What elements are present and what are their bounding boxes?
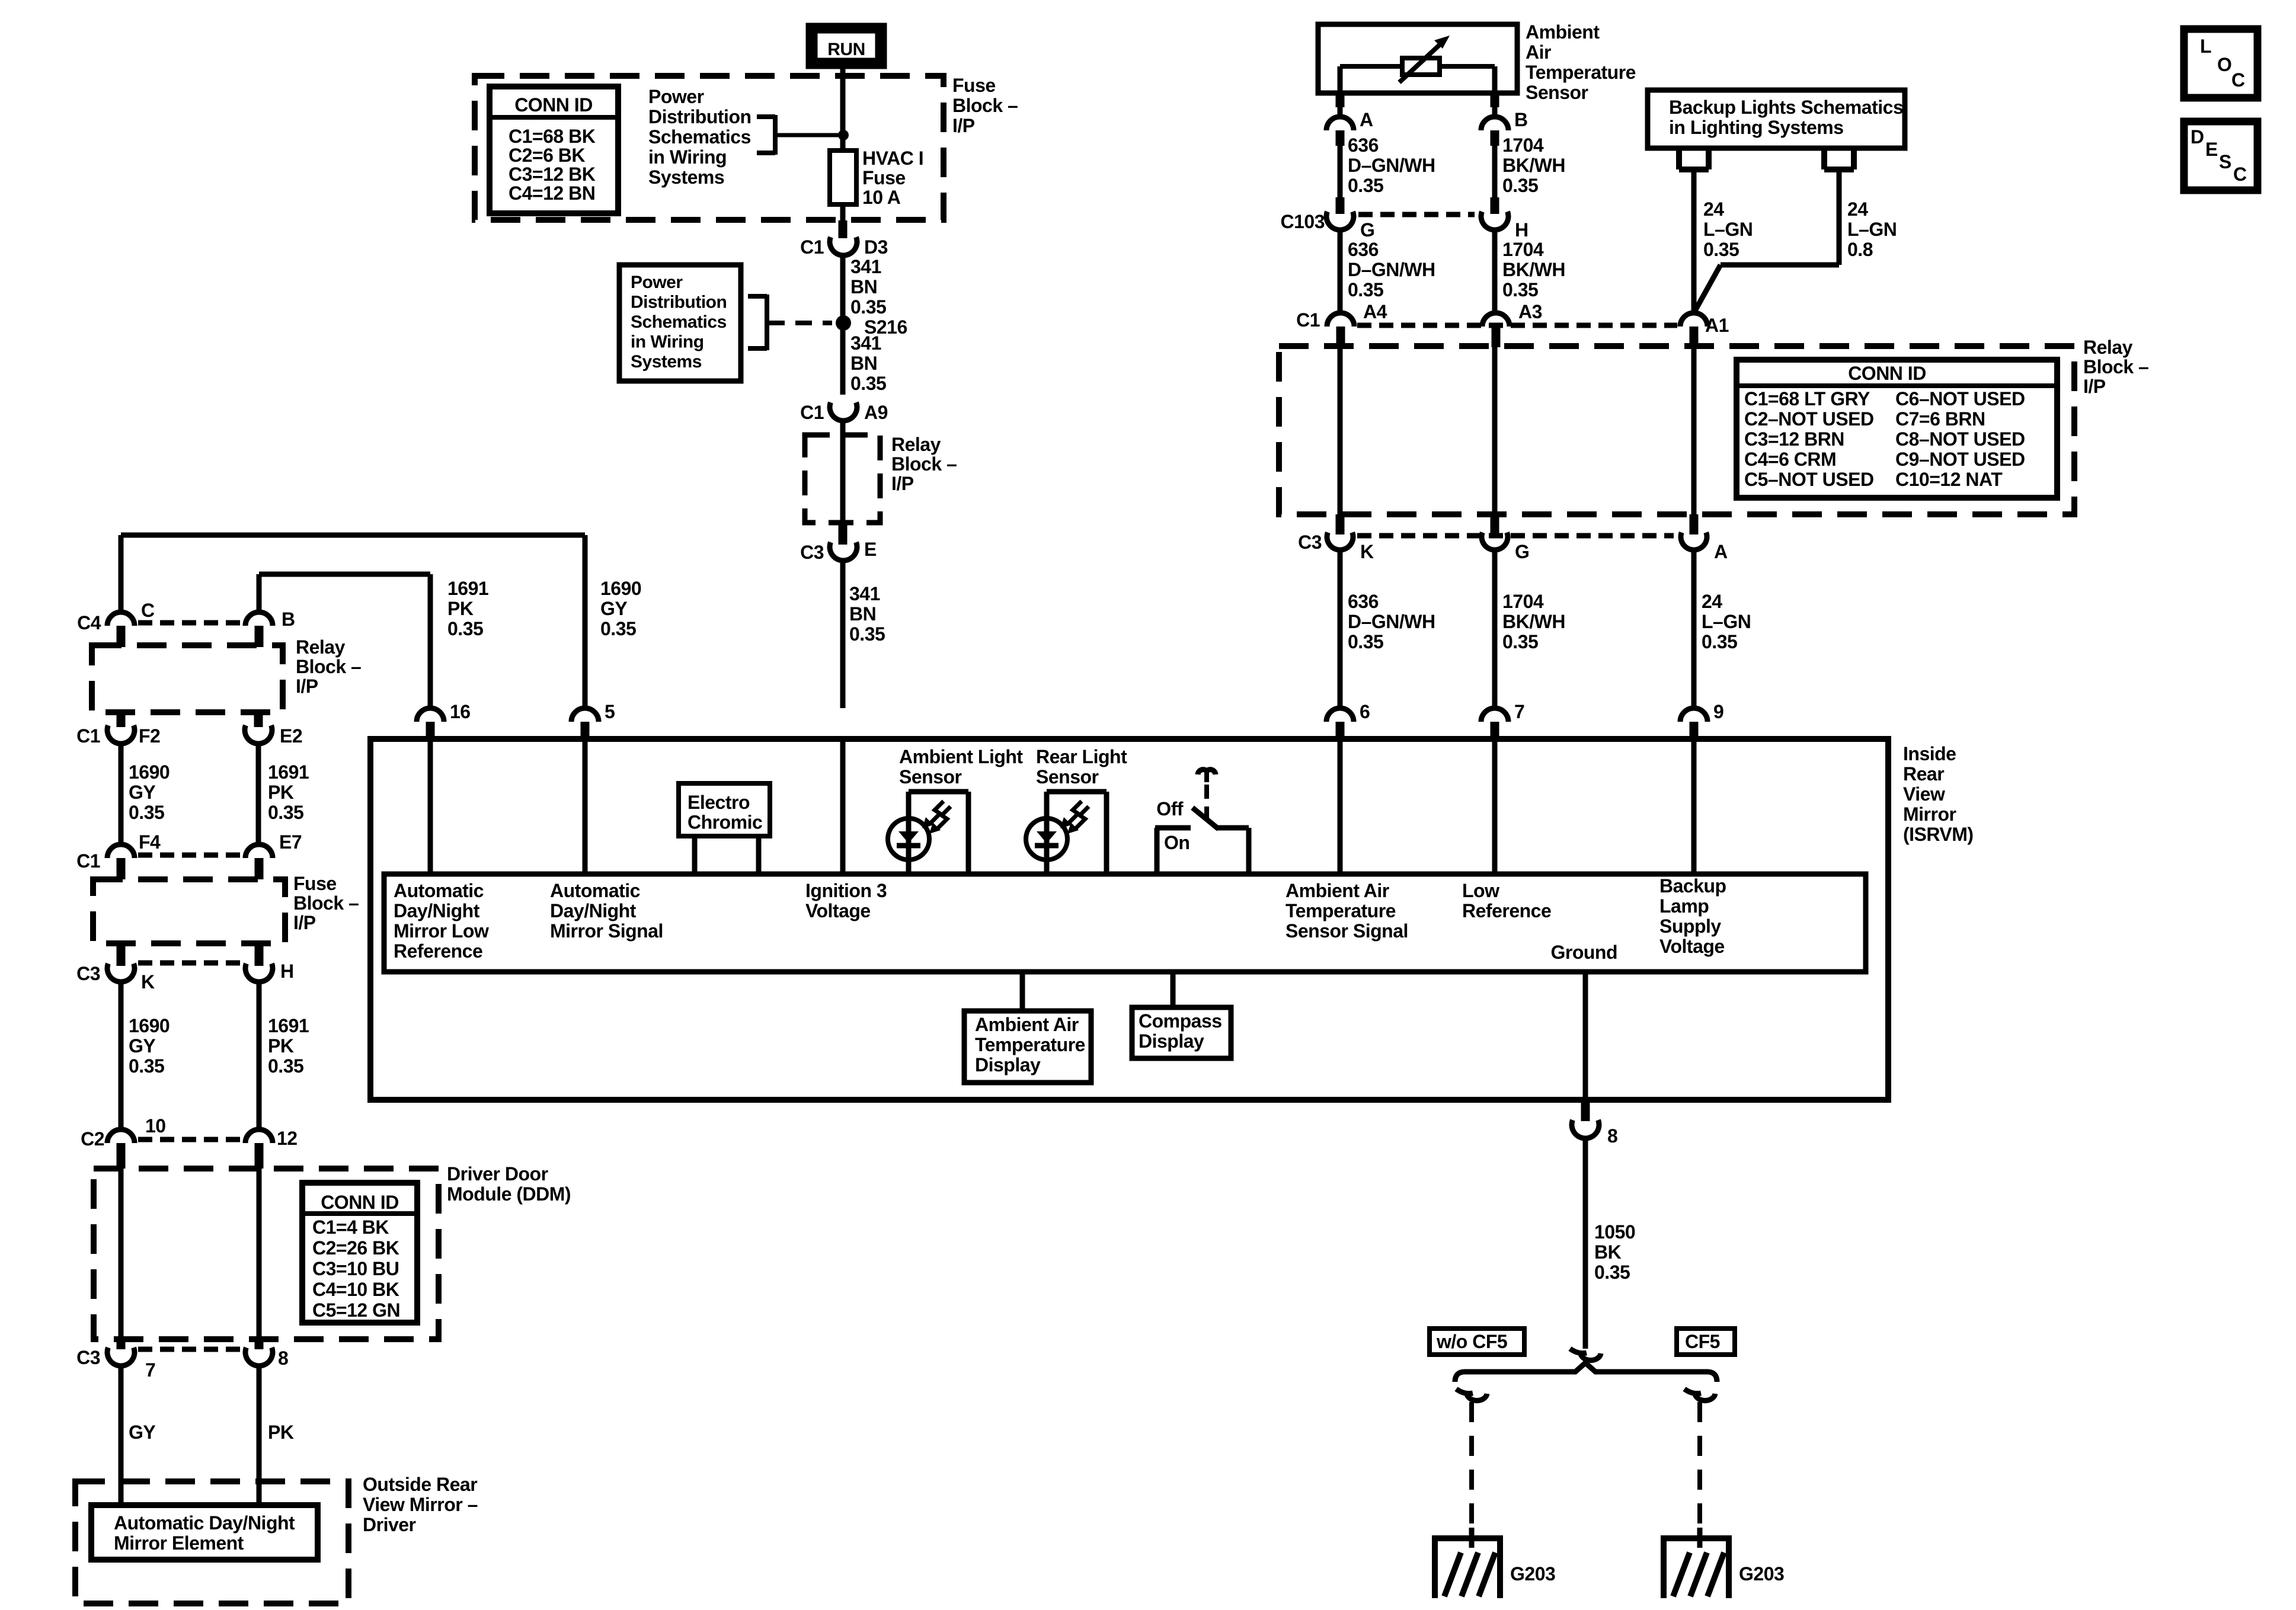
svg-text:Relay: Relay	[891, 434, 941, 455]
wire label 636 D-GN/WH 0.35 (A)	[1340, 135, 1435, 197]
svg-text:Lamp: Lamp	[1659, 895, 1709, 917]
svg-text:in Lighting Systems: in Lighting Systems	[1669, 117, 1844, 138]
svg-text:Rear: Rear	[1903, 763, 1944, 785]
label Low Reference	[1462, 880, 1551, 921]
CONN ID table (DDM)	[302, 1183, 417, 1323]
svg-text:Block –: Block –	[296, 656, 361, 677]
wire pin7 to function box	[1492, 742, 1498, 874]
connector C1 E2	[245, 725, 302, 747]
connector C1 E7	[245, 831, 302, 879]
wire to compass display	[1171, 972, 1176, 1007]
svg-text:G: G	[1515, 541, 1529, 562]
label Ambient Air Temperature Sensor	[1526, 21, 1636, 103]
svg-text:Systems: Systems	[631, 352, 702, 372]
svg-text:C3=12 BK: C3=12 BK	[509, 164, 596, 185]
svg-text:Ambient Light: Ambient Light	[899, 746, 1023, 767]
ISRVM pin function box	[384, 874, 1866, 972]
svg-text:Schematics: Schematics	[631, 312, 727, 332]
svg-text:G203: G203	[1739, 1563, 1784, 1585]
svg-text:View: View	[1903, 783, 1945, 805]
svg-text:C1=68 BK: C1=68 BK	[509, 126, 596, 147]
svg-text:Sensor: Sensor	[1526, 82, 1588, 103]
svg-text:C1=68 LT GRY: C1=68 LT GRY	[1744, 388, 1870, 409]
wire H stub	[255, 943, 264, 966]
connector C1 A4	[1296, 301, 1387, 347]
svg-text:C2=26 BK: C2=26 BK	[312, 1237, 399, 1259]
wire K stub	[117, 943, 126, 966]
svg-text:341: 341	[850, 332, 881, 354]
svg-text:E7: E7	[279, 831, 302, 853]
svg-text:Temperature: Temperature	[975, 1034, 1085, 1055]
label Outside Rear View Mirror - Driver	[363, 1474, 478, 1535]
outside rear view mirror dashed box	[75, 1481, 348, 1603]
svg-text:1691: 1691	[268, 1015, 309, 1036]
svg-text:C3: C3	[76, 1347, 100, 1368]
wire pin9 to function box	[1691, 742, 1697, 874]
svg-text:D–GN/WH: D–GN/WH	[1348, 259, 1435, 280]
svg-text:Supply: Supply	[1659, 916, 1721, 937]
svg-text:1691: 1691	[447, 578, 488, 599]
svg-text:Systems: Systems	[648, 167, 724, 188]
svg-text:L–GN: L–GN	[1703, 219, 1753, 240]
label Fuse Block - I/P (left)	[293, 873, 359, 933]
svg-text:D–GN/WH: D–GN/WH	[1348, 155, 1435, 176]
svg-text:C: C	[141, 600, 155, 621]
wire K through relay block	[1338, 346, 1343, 534]
label Ambient Light Sensor	[899, 746, 1023, 788]
svg-text:S: S	[2219, 151, 2231, 172]
svg-text:24: 24	[1702, 591, 1722, 612]
backup box tab left	[1679, 148, 1709, 169]
wire label PK	[259, 1366, 294, 1505]
svg-text:C6–NOT USED: C6–NOT USED	[1895, 388, 2025, 409]
svg-text:Mirror Signal: Mirror Signal	[550, 920, 663, 942]
svg-text:0.35: 0.35	[850, 296, 886, 318]
svg-text:HVAC I: HVAC I	[862, 148, 923, 169]
options brace	[1455, 1363, 1717, 1382]
svg-text:GY: GY	[129, 1422, 155, 1443]
svg-text:PK: PK	[447, 598, 474, 619]
svg-text:G203: G203	[1510, 1563, 1555, 1585]
label Ground	[1550, 942, 1617, 963]
pin 16 connector	[417, 701, 471, 742]
svg-text:GY: GY	[129, 782, 155, 803]
svg-text:1704: 1704	[1502, 135, 1544, 156]
svg-text:C7=6 BRN: C7=6 BRN	[1895, 408, 1985, 430]
inside rear view mirror box	[370, 739, 1888, 1100]
svg-text:I/P: I/P	[891, 473, 914, 494]
svg-text:F4: F4	[139, 831, 161, 853]
dashed pairing line F4-E7	[138, 853, 243, 858]
relay block I/P dashed box (small)	[805, 421, 880, 523]
svg-text:C4: C4	[77, 612, 101, 633]
svg-text:A1: A1	[1705, 315, 1729, 336]
svg-text:C1: C1	[76, 850, 100, 872]
svg-text:341: 341	[849, 583, 880, 604]
svg-text:Ambient: Ambient	[1526, 21, 1600, 43]
svg-text:0.35: 0.35	[1702, 631, 1737, 652]
connector C3 K	[1298, 532, 1374, 562]
svg-text:w/o CF5: w/o CF5	[1436, 1331, 1507, 1352]
wire 341 BN 0.35 to pin 13	[843, 561, 885, 708]
svg-text:1704: 1704	[1502, 591, 1544, 612]
svg-text:A: A	[1714, 541, 1728, 562]
svg-text:5: 5	[605, 701, 615, 722]
wire pin6 to function box	[1338, 742, 1343, 874]
svg-text:Inside: Inside	[1903, 743, 1956, 764]
pointer bracket (S216)	[748, 295, 767, 350]
fuse block I/P dashed box (left)	[93, 879, 285, 943]
svg-text:C1: C1	[1296, 309, 1320, 331]
wire label 636 D-GN/WH 0.35 (G)	[1340, 230, 1435, 312]
connector C4 B	[245, 609, 295, 647]
wire elbow joining backup feeds	[1694, 265, 1839, 313]
svg-text:Air: Air	[1526, 41, 1551, 63]
svg-text:10 A: 10 A	[862, 187, 901, 208]
svg-text:C1=4 BK: C1=4 BK	[312, 1217, 389, 1238]
svg-text:Ignition 3: Ignition 3	[805, 880, 887, 901]
svg-text:341: 341	[850, 256, 881, 277]
connector C3 H (left)	[245, 961, 294, 982]
pin 5 connector	[571, 701, 615, 742]
svg-text:Backup: Backup	[1659, 875, 1726, 897]
svg-text:16: 16	[450, 701, 471, 722]
svg-text:L: L	[2200, 36, 2211, 57]
svg-text:10: 10	[145, 1115, 166, 1137]
wire pin13 to function box	[840, 742, 846, 874]
svg-text:Driver: Driver	[363, 1514, 416, 1535]
connector C1 A1	[1680, 313, 1729, 347]
svg-text:Fuse: Fuse	[293, 873, 337, 894]
svg-text:PK: PK	[268, 1422, 294, 1443]
svg-text:C4=6 CRM: C4=6 CRM	[1744, 449, 1836, 470]
fuse block I/P dashed box	[475, 76, 944, 220]
connector C103 H	[1481, 197, 1528, 241]
svg-text:0.35: 0.35	[1594, 1262, 1630, 1283]
wire pin5 to function box	[583, 742, 588, 874]
light rays (ambient sensor)	[922, 801, 951, 834]
connector C1 D3	[800, 236, 888, 258]
svg-text:On: On	[1164, 832, 1189, 853]
wire bracket to junction	[775, 133, 843, 137]
svg-text:CF5: CF5	[1685, 1331, 1720, 1352]
connector C3 E	[800, 539, 877, 563]
svg-text:0.35: 0.35	[1502, 631, 1538, 652]
svg-text:Mirror Low: Mirror Low	[394, 920, 489, 942]
svg-text:0.35: 0.35	[850, 373, 886, 394]
svg-text:0.35: 0.35	[1348, 175, 1383, 196]
wire label 24 L-GN 0.35 (A)	[1694, 550, 1751, 708]
svg-text:Display: Display	[975, 1054, 1041, 1076]
ambient light sensor circuit	[888, 792, 968, 874]
electro chromic box	[679, 783, 770, 874]
power distribution schematics box (solid)	[619, 265, 741, 381]
svg-text:in Wiring: in Wiring	[648, 146, 727, 168]
dashed pairing line C103	[1358, 212, 1475, 217]
svg-text:C8–NOT USED: C8–NOT USED	[1895, 428, 2025, 450]
svg-text:0.35: 0.35	[1502, 279, 1538, 300]
svg-text:O: O	[2217, 54, 2231, 75]
svg-text:BK/WH: BK/WH	[1502, 611, 1565, 632]
svg-text:CONN ID: CONN ID	[1848, 363, 1926, 384]
svg-text:C5=12 GN: C5=12 GN	[312, 1299, 400, 1321]
svg-text:C3=10 BU: C3=10 BU	[312, 1258, 399, 1279]
svg-text:C3: C3	[76, 963, 100, 984]
svg-text:PK: PK	[268, 1035, 294, 1057]
label Relay Block - I/P (right)	[2083, 337, 2148, 397]
svg-text:Voltage: Voltage	[1659, 936, 1725, 957]
connector C1 F4	[76, 831, 161, 879]
svg-text:H: H	[280, 961, 294, 982]
svg-text:C: C	[2231, 69, 2245, 91]
svg-text:C3=12 BRN: C3=12 BRN	[1744, 428, 1844, 450]
wire 24 L-GN 0.35	[1694, 169, 1753, 313]
wire sensor A	[1338, 93, 1343, 117]
connector C3 7	[76, 1347, 155, 1381]
wire label 1704 BK/WH 0.35 (G)	[1495, 550, 1565, 708]
svg-text:1690: 1690	[129, 1015, 170, 1036]
label Relay Block - I/P (left)	[296, 636, 361, 697]
wire label 1704 BK/WH 0.35 (H)	[1495, 230, 1565, 312]
svg-text:Ambient Air: Ambient Air	[975, 1014, 1079, 1035]
label Ambient Air Temperature Sensor Signal	[1285, 880, 1408, 942]
svg-text:Block –: Block –	[952, 95, 1018, 116]
svg-text:BK/WH: BK/WH	[1502, 259, 1565, 280]
svg-text:0.35: 0.35	[849, 623, 885, 645]
connector C103 G	[1281, 197, 1375, 241]
switch handle	[1198, 770, 1216, 782]
svg-text:0.35: 0.35	[1348, 631, 1383, 652]
svg-text:0.35: 0.35	[1703, 239, 1739, 260]
wire through relay block	[840, 435, 846, 545]
svg-text:E: E	[2205, 139, 2218, 160]
connector C3 A	[1681, 533, 1728, 563]
svg-text:C: C	[2233, 164, 2247, 185]
wire label 1690 GY 0.35 (pin5)	[600, 578, 641, 639]
wire fuse to C1 D3	[840, 204, 846, 238]
svg-text:D–GN/WH: D–GN/WH	[1348, 611, 1435, 632]
svg-text:C1: C1	[800, 402, 824, 423]
svg-text:7: 7	[145, 1359, 155, 1381]
svg-text:C2–NOT USED: C2–NOT USED	[1744, 408, 1874, 430]
svg-text:BK/WH: BK/WH	[1502, 155, 1565, 176]
svg-text:1691: 1691	[268, 761, 309, 783]
svg-text:C2: C2	[81, 1128, 104, 1150]
svg-text:BN: BN	[849, 603, 876, 625]
wire 12 through DDM	[257, 1169, 262, 1349]
svg-text:E: E	[864, 539, 877, 560]
fuse HVAC I 10 A	[830, 135, 923, 208]
svg-text:Rear Light: Rear Light	[1036, 746, 1127, 767]
connector C3 8	[245, 1347, 288, 1369]
svg-text:Block –: Block –	[2083, 356, 2148, 377]
wire label 1691 PK 0.35 (H)	[259, 982, 309, 1129]
w/o CF5 box	[1430, 1329, 1524, 1355]
svg-text:Schematics: Schematics	[648, 126, 751, 148]
svg-text:E2: E2	[280, 725, 302, 747]
backup box tab right	[1824, 148, 1854, 169]
svg-text:Display: Display	[1139, 1030, 1204, 1052]
svg-text:Driver Door: Driver Door	[447, 1163, 548, 1185]
svg-text:Sensor: Sensor	[899, 766, 962, 788]
svg-text:B: B	[282, 609, 295, 630]
svg-text:C4=12 BN: C4=12 BN	[509, 183, 595, 204]
svg-text:24: 24	[1703, 199, 1724, 220]
svg-text:Day/Night: Day/Night	[550, 900, 637, 921]
svg-text:A9: A9	[864, 402, 888, 423]
label Inside Rear View Mirror (ISRVM)	[1903, 743, 1974, 845]
svg-text:Relay: Relay	[296, 636, 346, 658]
svg-text:A: A	[1360, 109, 1373, 130]
svg-text:Voltage: Voltage	[805, 900, 871, 921]
label Ignition 3 Voltage	[805, 880, 887, 921]
svg-text:8: 8	[1607, 1125, 1617, 1147]
svg-text:12: 12	[277, 1128, 298, 1149]
svg-text:Power: Power	[648, 86, 704, 107]
svg-text:H: H	[1515, 219, 1528, 241]
svg-text:C2=6 BK: C2=6 BK	[509, 145, 585, 166]
svg-text:BN: BN	[850, 353, 877, 374]
svg-text:0.35: 0.35	[600, 618, 636, 639]
wire label 1690 GY 0.35 (F2)	[121, 744, 170, 844]
relay block I/P dashed box (right)	[1279, 346, 2074, 514]
CONN ID table (fuse block)	[490, 87, 618, 213]
svg-text:Power: Power	[631, 273, 683, 292]
label Automatic Day/Night Mirror Signal	[550, 880, 663, 942]
svg-text:Sensor: Sensor	[1036, 766, 1099, 788]
CONN ID table (relay block)	[1737, 360, 2057, 498]
svg-text:0.35: 0.35	[1502, 175, 1538, 196]
connector C1 F2	[76, 725, 160, 747]
svg-text:K: K	[141, 971, 155, 993]
wire G through relay block	[1492, 346, 1498, 534]
pin 9 connector	[1680, 701, 1723, 742]
svg-text:8: 8	[278, 1347, 288, 1369]
wire label 1690 GY 0.35 (K)	[121, 982, 170, 1129]
svg-text:0.35: 0.35	[129, 802, 164, 823]
wire harness top horizontal 1	[121, 535, 585, 708]
svg-text:Backup Lights Schematics: Backup Lights Schematics	[1669, 97, 1903, 118]
svg-text:RUN: RUN	[827, 40, 865, 59]
svg-text:BK: BK	[1594, 1241, 1622, 1263]
svg-text:Automatic: Automatic	[550, 880, 640, 901]
svg-text:CONN ID: CONN ID	[321, 1192, 399, 1213]
switch dashed actuator	[1204, 785, 1209, 821]
svg-text:9: 9	[1713, 701, 1723, 722]
pointer bracket (fuse block)	[757, 115, 775, 155]
svg-text:C1: C1	[76, 725, 100, 747]
automatic day/night mirror element box	[91, 1505, 318, 1560]
connector C1 A9	[800, 402, 888, 423]
ground G203 right	[1664, 1528, 1784, 1598]
svg-text:A4: A4	[1363, 301, 1387, 322]
svg-text:Block –: Block –	[293, 892, 359, 914]
wire label 636 D-GN/WH 0.35 (K)	[1340, 550, 1435, 708]
dashed pairing line C4 row	[138, 620, 243, 626]
svg-text:C3: C3	[800, 542, 824, 563]
svg-text:G: G	[1360, 219, 1374, 241]
label Backup Lamp Supply Voltage	[1659, 875, 1726, 957]
svg-text:in Wiring: in Wiring	[631, 332, 704, 352]
wire E2 stub	[254, 710, 263, 727]
svg-text:B: B	[1514, 109, 1528, 130]
svg-text:Mirror Element: Mirror Element	[114, 1532, 244, 1554]
svg-text:D3: D3	[864, 236, 888, 258]
pin 8 connector	[1572, 1120, 1617, 1147]
svg-text:C10=12 NAT: C10=12 NAT	[1895, 469, 2003, 490]
svg-text:0.8: 0.8	[1847, 239, 1873, 260]
junction node	[838, 130, 849, 140]
wire sensor B	[1492, 93, 1498, 117]
svg-text:636: 636	[1348, 135, 1379, 156]
ambient air temperature display box	[964, 1011, 1091, 1083]
svg-text:Ground: Ground	[1550, 942, 1617, 963]
dashed pairing line C2 row	[138, 1137, 243, 1142]
svg-text:C9–NOT USED: C9–NOT USED	[1895, 449, 2025, 470]
svg-text:636: 636	[1348, 239, 1379, 260]
svg-text:6: 6	[1360, 701, 1370, 722]
ignition switch RUN box	[810, 27, 883, 65]
label Fuse Block - I/P	[952, 75, 1018, 136]
svg-text:K: K	[1360, 541, 1374, 562]
svg-text:Automatic Day/Night: Automatic Day/Night	[114, 1512, 295, 1534]
svg-text:1704: 1704	[1502, 239, 1544, 260]
label Automatic Day/Night Mirror Low Reference	[394, 880, 489, 962]
connector C4 C	[77, 600, 155, 647]
svg-text:0.35: 0.35	[447, 618, 483, 639]
svg-text:L–GN: L–GN	[1702, 611, 1751, 632]
dashed wire to ground left	[1469, 1402, 1474, 1538]
dashed pairing line C3 7-8	[138, 1347, 243, 1352]
wire A through relay block	[1691, 346, 1697, 534]
svg-text:Temperature: Temperature	[1526, 62, 1636, 83]
light rays (rear sensor)	[1060, 801, 1089, 834]
wire F2 stub	[117, 710, 126, 727]
connector C3 K (left)	[76, 963, 155, 993]
connector A (sensor)	[1326, 93, 1373, 146]
wire label 1691 PK 0.35 (E2)	[258, 744, 309, 844]
svg-text:F2: F2	[139, 725, 160, 747]
svg-text:I/P: I/P	[293, 912, 316, 933]
label Relay Block - I/P (small)	[891, 434, 957, 494]
backup lights schematics box	[1648, 90, 1905, 148]
wire S216 to A9	[843, 330, 886, 395]
svg-text:Sensor Signal: Sensor Signal	[1285, 920, 1408, 942]
svg-text:I/P: I/P	[296, 676, 318, 697]
svg-text:Mirror: Mirror	[1903, 804, 1956, 825]
svg-text:I/P: I/P	[952, 115, 975, 136]
svg-text:Low: Low	[1462, 880, 1499, 901]
wire end connector	[1570, 1349, 1601, 1361]
svg-text:L–GN: L–GN	[1847, 219, 1897, 240]
svg-text:Day/Night: Day/Night	[394, 900, 480, 921]
connector B (sensor)	[1481, 93, 1528, 146]
pin 7 connector	[1481, 701, 1524, 742]
svg-text:C4=10 BK: C4=10 BK	[312, 1279, 399, 1300]
svg-text:Reference: Reference	[394, 940, 482, 962]
svg-text:7: 7	[1514, 701, 1524, 722]
dashed wire to ground right	[1697, 1402, 1702, 1538]
svg-text:Compass: Compass	[1139, 1010, 1222, 1032]
wire label 1704 BK/WH 0.35 (B)	[1495, 135, 1565, 197]
compass display box	[1132, 1007, 1231, 1058]
connector C1 A3	[1482, 301, 1542, 347]
wire harness top horizontal 2	[259, 574, 430, 708]
svg-text:Fuse: Fuse	[952, 75, 996, 96]
svg-text:Outside Rear: Outside Rear	[363, 1474, 477, 1495]
svg-text:1690: 1690	[129, 761, 170, 783]
wire label 341 BN 0.35 (upper)	[843, 255, 886, 318]
